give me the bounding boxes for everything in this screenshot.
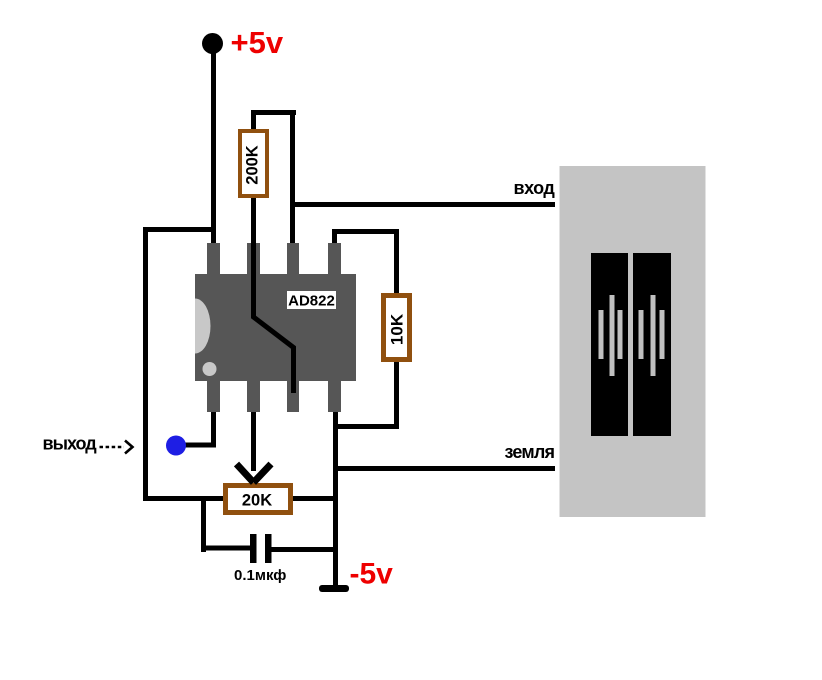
- svg-text:выход: выход: [43, 434, 98, 454]
- IC label box AD822: [287, 291, 336, 309]
- potentiometer wiper arrowhead: [237, 464, 272, 483]
- wire top feedback horizontal: [143, 227, 216, 232]
- wire pin 4 top lead: [332, 229, 337, 244]
- wire ground horizontal (земля): [333, 466, 555, 471]
- wire left rail vertical: [143, 227, 148, 501]
- microphone left element: [591, 253, 628, 436]
- pin 6 bottom: [247, 380, 260, 412]
- wire 200K bottom lead to pin 2: [251, 195, 256, 244]
- internal strap wire through IC: [254, 243, 294, 393]
- output pointer chevron: [125, 441, 133, 454]
- wire pot left lead: [143, 496, 228, 501]
- pin 1 top: [207, 243, 220, 275]
- wire top bend horizontal: [251, 110, 296, 115]
- ground symbol bar: [319, 585, 349, 592]
- wire capacitor drop vertical: [201, 496, 206, 552]
- svg-text:0.1мкф: 0.1мкф: [234, 567, 286, 584]
- wire capacitor left horizontal: [201, 546, 251, 551]
- pin 3 top: [287, 243, 299, 275]
- potentiometer R3 20K: [226, 486, 291, 513]
- wire 10K top vertical: [394, 229, 399, 295]
- svg-text:200K: 200K: [244, 145, 262, 185]
- pin 4 top: [328, 243, 341, 275]
- op-amp U1 AD822 body: [195, 274, 356, 381]
- IC notch: [195, 299, 210, 354]
- capacitor C1 left plate: [250, 534, 257, 563]
- capacitor C1 right plate: [265, 534, 272, 563]
- wire 10K bottom horizontal: [333, 424, 399, 429]
- svg-text:20K: 20K: [242, 492, 272, 510]
- left element slot bars: [599, 295, 623, 376]
- node +5V supply dot: [202, 33, 223, 54]
- svg-text:-5v: -5v: [350, 558, 394, 591]
- wire 10K top horizontal: [332, 229, 399, 234]
- pin 5 bottom: [207, 380, 220, 412]
- svg-text:AD822: AD822: [288, 293, 335, 310]
- right element slot bars: [639, 295, 665, 376]
- output pointer dashes: [100, 446, 125, 449]
- wire 200K top lead: [251, 110, 256, 135]
- wire input horizontal (вход): [292, 202, 555, 207]
- resistor R1 200K: [240, 131, 267, 196]
- svg-text:10K: 10K: [388, 313, 407, 345]
- pin 8 bottom: [328, 380, 341, 412]
- microphone right element: [633, 253, 671, 436]
- pin 2 top: [247, 243, 260, 275]
- wire output to blue node: [180, 443, 216, 448]
- resistor R2 10K: [384, 296, 410, 360]
- wire pot right lead: [288, 496, 338, 501]
- svg-text:вход: вход: [514, 178, 556, 198]
- IC pin-1 index dot: [203, 362, 217, 376]
- wire +5v vertical to pin 1: [211, 44, 216, 244]
- wire pin 6 lead down to wiper arrow: [251, 411, 256, 471]
- wire pin 5 lead down: [211, 411, 216, 448]
- wire right branch vertical to pin 3: [290, 110, 295, 244]
- pin 7 bottom: [287, 380, 299, 412]
- microphone body: [560, 166, 706, 517]
- svg-text:+5v: +5v: [231, 25, 284, 60]
- wire negative rail vertical: [333, 411, 338, 586]
- node output blue dot: [166, 436, 186, 456]
- wire capacitor right horizontal: [270, 547, 338, 552]
- svg-text:земля: земля: [505, 442, 555, 462]
- wire 10K bottom vertical: [394, 360, 399, 429]
